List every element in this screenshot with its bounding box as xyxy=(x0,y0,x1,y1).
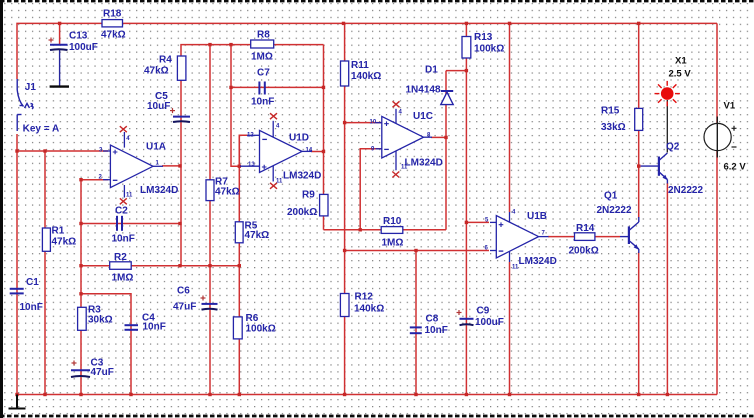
capacitor C1 xyxy=(10,289,24,294)
svg-text:1N4148: 1N4148 xyxy=(406,85,441,96)
svg-text:47kΩ: 47kΩ xyxy=(52,237,77,248)
resistor R12 xyxy=(340,294,349,317)
wire R7 C6 column xyxy=(209,45,211,395)
wire U1D output xyxy=(311,151,324,153)
svg-text:X1: X1 xyxy=(675,56,687,67)
X mark U1A pin4 xyxy=(120,126,127,132)
svg-text:Key = A: Key = A xyxy=(23,124,60,135)
svg-text:R8: R8 xyxy=(257,30,270,41)
svg-text:10: 10 xyxy=(370,120,377,126)
svg-text:10nF: 10nF xyxy=(143,322,166,333)
svg-text:12: 12 xyxy=(247,133,254,139)
svg-text:13: 13 xyxy=(248,162,255,168)
wire D1 column xyxy=(445,71,447,230)
svg-text:R12: R12 xyxy=(355,292,374,303)
svg-text:100kΩ: 100kΩ xyxy=(246,324,276,335)
svg-text:LM324D: LM324D xyxy=(283,171,321,182)
resistor R8 xyxy=(251,40,274,48)
wire U1B plus row xyxy=(466,221,489,223)
wire D1 to R13 link xyxy=(446,70,466,72)
resistor R5 xyxy=(235,222,243,243)
resistor R7 xyxy=(206,180,214,201)
svg-text:V1: V1 xyxy=(724,101,736,112)
ground main xyxy=(9,395,26,409)
capacitor C6 xyxy=(202,304,218,310)
wire U1A plus input xyxy=(17,150,108,152)
wire U1B pin11 ground xyxy=(509,262,511,395)
svg-text:33kΩ: 33kΩ xyxy=(601,122,626,133)
page border left bar xyxy=(0,0,3,418)
switch J1 xyxy=(17,79,33,131)
page border bottom dashed xyxy=(0,415,754,418)
X mark U1C pin4 xyxy=(393,101,400,107)
op-amp U1C xyxy=(376,109,433,171)
svg-text:R6: R6 xyxy=(246,313,259,324)
svg-text:R1: R1 xyxy=(52,226,65,237)
svg-text:R18: R18 xyxy=(103,9,122,20)
C5 plus mark xyxy=(170,108,175,113)
capacitor C13 xyxy=(50,45,68,50)
svg-text:10nF: 10nF xyxy=(112,234,135,245)
resistor R18 xyxy=(102,20,123,27)
wire C2 row xyxy=(81,223,180,225)
wire Q2 emitter to bus xyxy=(666,183,668,395)
svg-text:200kΩ: 200kΩ xyxy=(287,207,317,218)
wire R2 row xyxy=(81,265,239,267)
wire R15 Q1 collector column xyxy=(638,23,640,218)
svg-text:R4: R4 xyxy=(159,55,172,66)
svg-text:47kΩ: 47kΩ xyxy=(144,66,169,77)
svg-text:47kΩ: 47kΩ xyxy=(245,230,270,241)
capacitor C7 xyxy=(259,82,264,95)
svg-text:LM324D: LM324D xyxy=(405,158,443,169)
svg-text:47uF: 47uF xyxy=(173,302,196,313)
C13 plus mark xyxy=(49,38,54,43)
wire U1B minus row xyxy=(345,250,489,252)
svg-text:C2: C2 xyxy=(115,206,128,217)
svg-text:11: 11 xyxy=(512,265,519,271)
C9 plus mark xyxy=(457,310,462,315)
wire U1B output to R14 xyxy=(548,236,620,238)
svg-text:R2: R2 xyxy=(114,252,127,263)
svg-text:R11: R11 xyxy=(351,60,369,71)
svg-text:14: 14 xyxy=(306,148,313,154)
wire C8 branch xyxy=(415,251,417,395)
svg-text:J1: J1 xyxy=(25,82,37,93)
svg-text:200kΩ: 200kΩ xyxy=(569,246,599,257)
svg-text:1MΩ: 1MΩ xyxy=(112,273,134,284)
svg-text:R14: R14 xyxy=(576,223,595,234)
resistor R9 xyxy=(320,194,328,216)
wire top supply bus xyxy=(17,23,717,79)
capacitor C9 xyxy=(460,319,474,325)
resistor R3 xyxy=(78,307,87,330)
svg-text:100uF: 100uF xyxy=(69,42,98,53)
svg-text:2N2222: 2N2222 xyxy=(668,185,703,196)
resistor R10 xyxy=(381,227,403,234)
svg-text:R15: R15 xyxy=(601,106,620,117)
svg-text:U1B: U1B xyxy=(527,211,547,222)
op-amp U1D xyxy=(240,121,312,182)
capacitor C5 xyxy=(173,117,190,122)
capacitor C4 xyxy=(125,325,139,330)
svg-text:140kΩ: 140kΩ xyxy=(351,71,381,82)
svg-text:11: 11 xyxy=(126,193,133,199)
wire R1 branch xyxy=(44,151,46,395)
wire C4 branch xyxy=(81,294,131,395)
wire U1C output xyxy=(431,136,446,138)
op-amp U1A xyxy=(103,132,163,198)
resistor R14 xyxy=(575,233,595,241)
wire R11 R12 column xyxy=(344,23,346,394)
wire U1C plus input xyxy=(345,122,384,124)
ground C13 xyxy=(50,50,69,87)
wire bottom ground bus xyxy=(17,394,717,396)
svg-text:47kΩ: 47kΩ xyxy=(215,187,240,198)
wire V1 right branch down xyxy=(716,23,718,394)
X mark U1D pin11 xyxy=(270,183,277,189)
wire R9 column xyxy=(323,45,325,230)
svg-text:10uF: 10uF xyxy=(147,101,170,112)
svg-text:11: 11 xyxy=(401,165,408,171)
X mark U1A pin11 xyxy=(120,198,127,204)
svg-text:47kΩ: 47kΩ xyxy=(101,30,126,41)
svg-text:R9: R9 xyxy=(302,190,315,201)
svg-text:C13: C13 xyxy=(69,31,88,42)
svg-text:U1D: U1D xyxy=(289,133,309,144)
wire U1B pin4 supply xyxy=(509,23,511,212)
svg-text:U1A: U1A xyxy=(146,142,166,153)
svg-text:LM324D: LM324D xyxy=(519,256,557,267)
svg-text:2.5 V: 2.5 V xyxy=(669,69,692,80)
voltage source V1 xyxy=(704,117,737,158)
X mark U1C pin11 xyxy=(392,172,399,178)
wire U1C minus loop xyxy=(360,149,384,230)
svg-text:C6: C6 xyxy=(177,286,190,297)
svg-text:100uF: 100uF xyxy=(475,317,504,328)
wire Q1 emitter to bus xyxy=(638,252,640,395)
svg-text:LM324D: LM324D xyxy=(140,185,178,196)
svg-text:R13: R13 xyxy=(474,32,493,43)
wire U1D minus dogleg xyxy=(239,135,248,166)
svg-text:30kΩ: 30kΩ xyxy=(88,315,113,326)
capacitor C2 xyxy=(117,216,122,231)
svg-text:U1C: U1C xyxy=(413,111,433,122)
resistor R11 xyxy=(341,61,349,86)
transistor Q2 xyxy=(641,153,668,184)
svg-text:C1: C1 xyxy=(26,277,39,288)
svg-text:C7: C7 xyxy=(257,68,270,79)
diode D1 xyxy=(441,91,453,105)
wire U1A output xyxy=(162,165,181,167)
svg-text:R10: R10 xyxy=(383,216,402,227)
svg-text:10nF: 10nF xyxy=(251,97,274,108)
svg-text:D1: D1 xyxy=(425,65,438,76)
X mark U1D pin4 xyxy=(270,113,277,119)
svg-text:10nF: 10nF xyxy=(425,325,448,336)
svg-text:140kΩ: 140kΩ xyxy=(354,304,384,315)
transistor Q1 xyxy=(620,217,639,253)
wire R8 left vertical xyxy=(231,45,239,167)
capacitor C8 xyxy=(410,327,422,333)
resistor R2 xyxy=(110,262,132,270)
svg-text:C8: C8 xyxy=(426,314,439,325)
page border top dashed xyxy=(0,0,754,2)
wire R5 R6 column xyxy=(238,135,240,394)
resistor R1 xyxy=(42,228,50,251)
wire feedback column x81 xyxy=(80,180,82,395)
svg-text:11: 11 xyxy=(276,179,283,185)
wire C7 row xyxy=(231,86,324,88)
svg-text:C9: C9 xyxy=(477,306,490,317)
resistor R4 xyxy=(177,56,186,80)
resistor R6 xyxy=(233,317,242,339)
op-amp U1B xyxy=(490,212,549,262)
svg-text:1MΩ: 1MΩ xyxy=(382,238,404,249)
svg-text:2N2222: 2N2222 xyxy=(597,205,632,216)
wire R4 C5 column xyxy=(181,45,324,266)
svg-text:100kΩ: 100kΩ xyxy=(474,44,504,55)
C3 plus mark xyxy=(72,361,77,366)
svg-text:Q2: Q2 xyxy=(666,142,680,153)
lamp probe X1 xyxy=(655,81,680,153)
svg-text:6.2 V: 6.2 V xyxy=(724,162,747,173)
wire left branch J1 to C1 to bus xyxy=(16,134,18,395)
svg-text:47uF: 47uF xyxy=(91,367,114,378)
wire C13 branch xyxy=(59,23,61,45)
resistor R15 xyxy=(635,108,643,130)
svg-text:Q1: Q1 xyxy=(604,191,618,202)
svg-text:1MΩ: 1MΩ xyxy=(251,52,273,63)
svg-text:10nF: 10nF xyxy=(20,302,43,313)
resistor R13 xyxy=(462,37,471,59)
wire U1A minus input xyxy=(81,179,108,181)
wire R9 to R10 row xyxy=(324,229,447,231)
capacitor C3 xyxy=(71,370,90,377)
C6 plus mark xyxy=(201,296,206,301)
wire R13 C9 column xyxy=(465,23,467,394)
